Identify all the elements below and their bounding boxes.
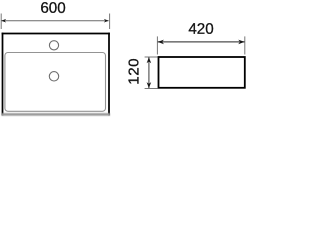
- svg-text:420: 420: [188, 21, 213, 38]
- dimension line 420: [158, 41, 245, 43]
- arrowhead bottom of 120: [147, 82, 152, 88]
- extension line right of 420 dimension: [244, 36, 246, 54]
- arrowhead top of 120: [147, 57, 152, 63]
- extension line left of 600 dimension: [0, 14, 2, 30]
- arrowhead left of 600: [1, 19, 6, 23]
- dimension line 600: [1, 20, 108, 22]
- arrowhead left of 420: [158, 40, 164, 45]
- basin outer rim right edge: [108, 33, 110, 116]
- extension line bottom of 120 dimension: [145, 88, 158, 90]
- svg-text:600: 600: [40, 0, 65, 17]
- basin outer rim left edge: [2, 33, 4, 116]
- basin inner bowl rectangle (top view): [5, 53, 106, 112]
- basin side view rectangle: [159, 57, 245, 88]
- basin outer rim rectangle (top view): [2, 33, 111, 116]
- faucet hole circle: [49, 41, 58, 50]
- dimension line 120: [148, 57, 150, 88]
- extension line top of 120 dimension: [145, 56, 158, 58]
- arrowhead right of 420: [238, 40, 244, 45]
- drain hole circle: [49, 72, 58, 81]
- extension line right of 600 dimension: [109, 14, 111, 30]
- extension line left of 420 dimension: [156, 36, 158, 54]
- svg-text:120: 120: [125, 58, 142, 85]
- arrowhead right of 600: [104, 19, 109, 23]
- basin outer rim top edge: [2, 33, 110, 35]
- basin outer rim bottom edge: [2, 113, 111, 116]
